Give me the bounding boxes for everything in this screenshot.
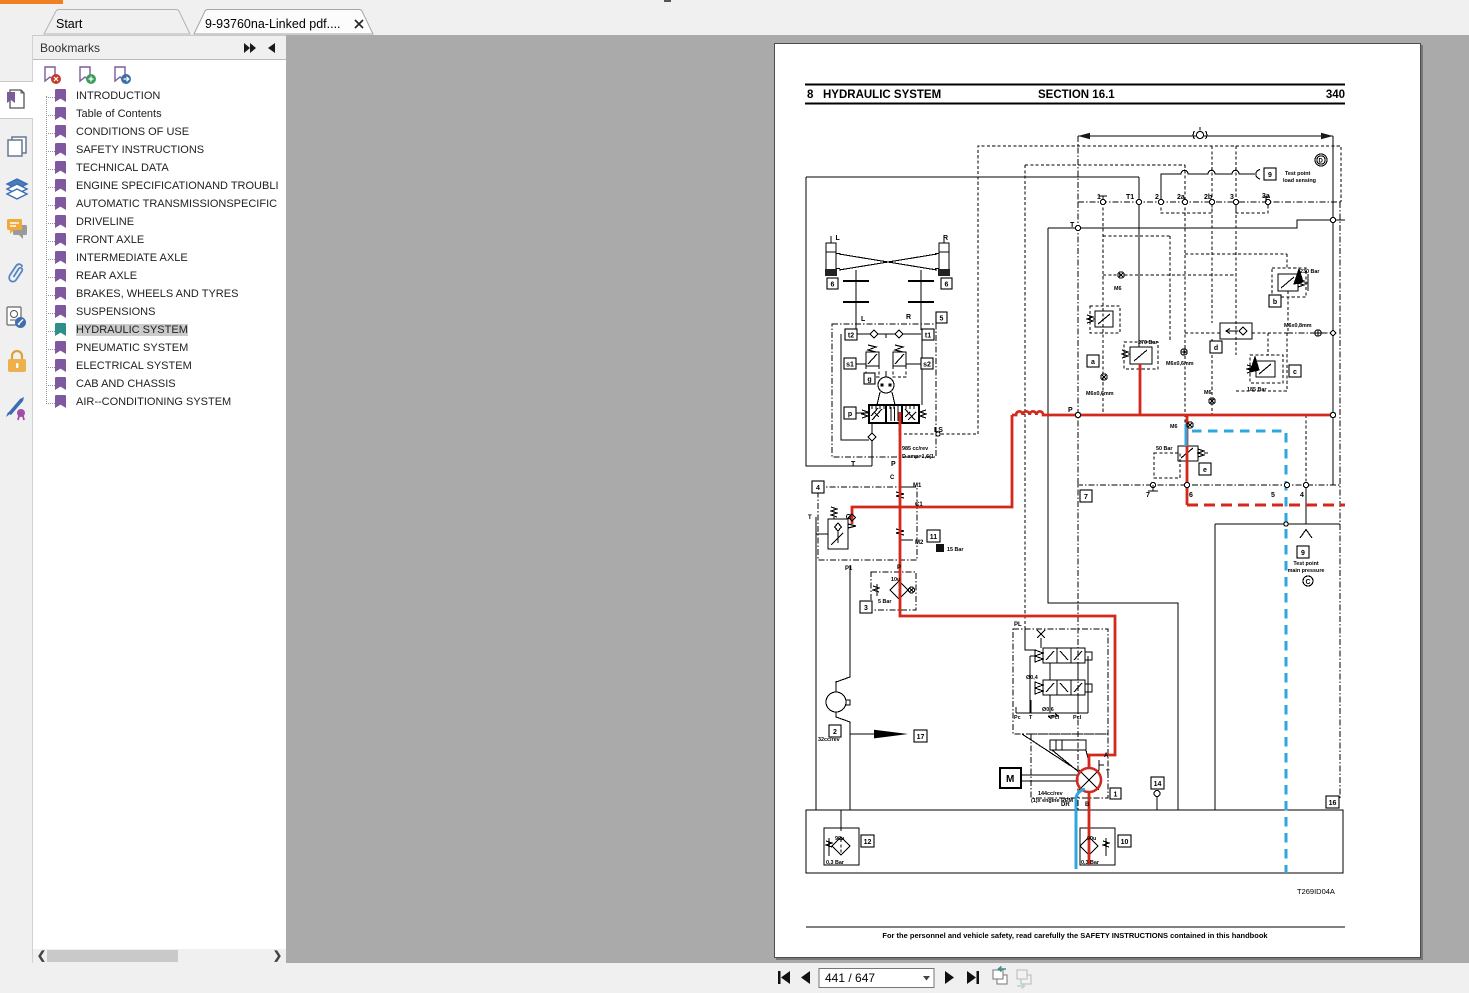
- svg-text:s1: s1: [846, 362, 854, 369]
- svg-text:9: 9: [1301, 550, 1305, 557]
- svg-text:b: b: [1273, 299, 1277, 306]
- svg-text:11: 11: [930, 534, 938, 541]
- svg-text:12: 12: [864, 839, 872, 846]
- svg-text:2: 2: [833, 729, 837, 736]
- svg-text:8 HYDRAULIC SYSTEM: 8 HYDRAULIC SYSTEM: [807, 89, 941, 101]
- svg-text:Pcl: Pcl: [1051, 715, 1060, 721]
- svg-text:Ø0,6: Ø0,6: [1042, 707, 1054, 713]
- svg-text:load sensing: load sensing: [1283, 178, 1316, 184]
- svg-text:6: 6: [945, 282, 949, 289]
- svg-text:17: 17: [917, 734, 925, 741]
- svg-text:For the personnel and vehicle: For the personnel and vehicle safety, re…: [882, 931, 1268, 940]
- svg-text:2: 2: [1155, 194, 1159, 201]
- svg-text:16: 16: [1329, 800, 1337, 807]
- svg-text:Pc: Pc: [1014, 715, 1021, 721]
- svg-text:4: 4: [1300, 492, 1304, 499]
- svg-text:P: P: [897, 565, 901, 571]
- svg-text:(1)x engine RPM: (1)x engine RPM: [1031, 798, 1073, 804]
- svg-text:R: R: [906, 314, 911, 321]
- svg-text:P: P: [891, 461, 896, 468]
- svg-text:T: T: [851, 461, 856, 468]
- svg-text:T: T: [1106, 770, 1110, 776]
- svg-text:M6x0,6mm: M6x0,6mm: [1086, 391, 1114, 397]
- svg-text:Test point: Test point: [1285, 171, 1311, 177]
- svg-text:L: L: [836, 235, 841, 242]
- svg-text:M6x0,6mm: M6x0,6mm: [1166, 361, 1194, 367]
- svg-text:Start: Start: [56, 17, 83, 31]
- svg-text:PL: PL: [1014, 622, 1022, 628]
- svg-text:R: R: [943, 235, 948, 242]
- svg-text:0,3 Bar: 0,3 Bar: [1081, 860, 1100, 866]
- svg-text:Pcl: Pcl: [1073, 715, 1082, 721]
- svg-text:e: e: [1203, 467, 1207, 474]
- svg-text:14: 14: [1154, 781, 1162, 788]
- svg-text:M2: M2: [915, 540, 924, 546]
- svg-text:1: 1: [1097, 194, 1101, 201]
- svg-text:P: P: [1068, 407, 1073, 414]
- svg-text:B: B: [1085, 802, 1090, 808]
- svg-text:15 Bar: 15 Bar: [947, 547, 964, 553]
- svg-text:985 cc/rev: 985 cc/rev: [902, 446, 928, 452]
- svg-text:T: T: [1070, 222, 1075, 229]
- svg-text:T: T: [1029, 715, 1033, 721]
- svg-text:C1: C1: [915, 502, 923, 508]
- svg-text:Ø0,4: Ø0,4: [1026, 675, 1038, 681]
- svg-text:main pressure: main pressure: [1288, 568, 1325, 574]
- svg-text:340: 340: [1326, 89, 1345, 101]
- svg-text:3a: 3a: [1262, 193, 1270, 200]
- svg-text:10: 10: [1121, 839, 1129, 846]
- svg-text:0,3 Bar: 0,3 Bar: [826, 860, 845, 866]
- svg-text:s2: s2: [923, 362, 931, 369]
- svg-text:50 Bar: 50 Bar: [1156, 446, 1173, 452]
- svg-text:T269ID04A: T269ID04A: [1297, 887, 1335, 896]
- svg-text:M: M: [1006, 774, 1014, 785]
- svg-text:90u: 90u: [835, 836, 844, 842]
- svg-text:M6x0,8mm: M6x0,8mm: [1284, 323, 1312, 329]
- svg-text:144cc/rev: 144cc/rev: [1038, 791, 1063, 797]
- svg-text:T1: T1: [1126, 194, 1134, 201]
- svg-text:1: 1: [1114, 792, 1118, 799]
- svg-text:M6: M6: [1114, 286, 1122, 292]
- svg-text:3: 3: [864, 605, 868, 612]
- svg-text:a: a: [1091, 359, 1095, 366]
- svg-text:t2: t2: [848, 333, 854, 340]
- svg-text:9: 9: [1268, 172, 1272, 179]
- svg-text:5: 5: [940, 316, 944, 323]
- svg-text:230 Bar: 230 Bar: [1300, 269, 1320, 275]
- svg-text:C: C: [890, 475, 895, 481]
- svg-text:g: g: [867, 377, 871, 384]
- svg-text:LS: LS: [934, 427, 943, 434]
- svg-text:5: 5: [1271, 492, 1275, 499]
- svg-text:7: 7: [1084, 494, 1088, 501]
- svg-text:p: p: [848, 411, 852, 418]
- svg-text:185 Bar: 185 Bar: [1247, 387, 1267, 393]
- svg-text:P1: P1: [845, 566, 853, 572]
- svg-text:M1: M1: [913, 483, 922, 489]
- svg-text:T: T: [808, 515, 812, 521]
- svg-text:c: c: [1293, 369, 1297, 376]
- svg-text:L: L: [861, 316, 866, 323]
- svg-text:2a: 2a: [1177, 194, 1185, 201]
- svg-text:270 Bar: 270 Bar: [1138, 340, 1158, 346]
- svg-text:d: d: [1214, 345, 1218, 352]
- svg-text:Test point: Test point: [1293, 561, 1319, 567]
- svg-text:7: 7: [1146, 492, 1150, 499]
- svg-text:M6: M6: [1204, 390, 1212, 396]
- svg-text:M6: M6: [1170, 424, 1178, 430]
- svg-text:441 / 647: 441 / 647: [825, 971, 875, 985]
- svg-text:D: D: [1319, 159, 1324, 165]
- svg-text:2b: 2b: [1204, 194, 1212, 201]
- svg-text:C: C: [1306, 579, 1311, 586]
- svg-text:3: 3: [1230, 194, 1234, 201]
- svg-text:10u: 10u: [891, 577, 900, 583]
- svg-text:9-93760na-Linked pdf....: 9-93760na-Linked pdf....: [205, 17, 341, 31]
- svg-text:6: 6: [1189, 492, 1193, 499]
- svg-text:D amp=1,6(1: D amp=1,6(1: [902, 454, 934, 460]
- svg-text:SECTION 16.1: SECTION 16.1: [1038, 89, 1115, 101]
- svg-text:t1: t1: [925, 333, 931, 340]
- svg-text:5 Bar: 5 Bar: [878, 599, 892, 605]
- svg-text:A: A: [1104, 753, 1109, 759]
- svg-text:4: 4: [816, 485, 820, 492]
- svg-text:6: 6: [831, 282, 835, 289]
- svg-text:32cc/rev: 32cc/rev: [818, 737, 840, 743]
- svg-text:90u: 90u: [1087, 836, 1096, 842]
